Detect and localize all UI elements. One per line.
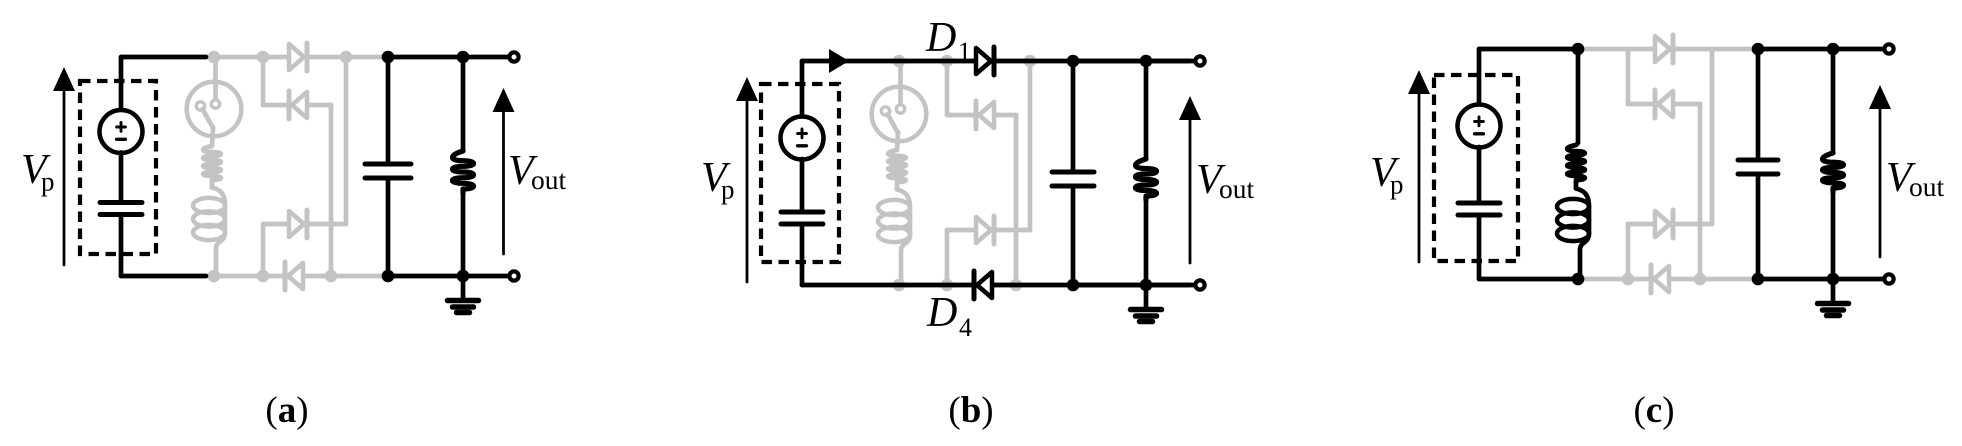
wire capacitor to bottom rail [119, 217, 124, 277]
voltage source Vp (circle +/-) [100, 110, 143, 153]
wire filter cap branch top [1071, 61, 1076, 170]
wire black bottom rail output side [1070, 283, 1194, 288]
terminal output + [1884, 44, 1893, 53]
wire D3 vertical up to top rail [344, 57, 349, 224]
wire switch to resistor [212, 127, 213, 146]
node top rail / bridge input junction [257, 51, 270, 64]
resistor RL (load) [453, 151, 474, 193]
wire black top rail from source [1479, 47, 1582, 52]
wire gray bottom rail (bridge input side) [891, 283, 1073, 288]
wire D3 row horizontal [1628, 222, 1712, 227]
voltage source Vp (circle +/-) [1458, 105, 1501, 148]
arrow Vout [1189, 114, 1192, 263]
wire inductor to bottom rail [214, 250, 216, 277]
dashed box (piezo element) [761, 84, 839, 262]
switch S1 (open, in circle) [187, 82, 242, 137]
resistor R (parasitic) [203, 146, 221, 182]
wire D2 vertical down to bottom rail [1014, 115, 1019, 285]
wire bridge input branch down from D3 row to bottom rail [261, 224, 266, 276]
svg-text:D: D [925, 15, 956, 61]
terminal output + [1195, 56, 1204, 65]
wire gray bottom rail (bridge input side) [206, 274, 388, 279]
dashed box (piezo element) [1434, 75, 1518, 261]
diode D3 [1655, 211, 1670, 237]
wire source top [119, 57, 124, 111]
wire bridge input branch down to D2 row [261, 57, 266, 105]
node cap top [1752, 43, 1765, 56]
capacitor Cf (filter) [1052, 170, 1094, 175]
wire resistor to inductor [1574, 182, 1579, 189]
svg-text:out: out [1219, 173, 1255, 204]
node top rail / parasitic branch junction [893, 55, 906, 68]
wire load branch bottom [1831, 192, 1836, 279]
wire D2 vertical down to bottom rail [1698, 104, 1703, 279]
wire source to capacitor [119, 153, 124, 201]
node bottom rail / parasitic branch junction [208, 270, 221, 283]
diode D1 [1655, 36, 1670, 62]
wire black top rail output side [385, 55, 508, 60]
wire black bottom rail output side [385, 274, 508, 279]
wire resistor to inductor [895, 184, 900, 190]
ground [1831, 279, 1836, 303]
node cap top [1067, 55, 1080, 68]
wire D2 row horizontal [1628, 102, 1700, 107]
node bottom rail / bridge input junction [1622, 273, 1635, 286]
wire black bottom rail output side [1755, 277, 1883, 282]
arrow Vout [502, 106, 505, 254]
voltage source Vp (circle +/-) [781, 117, 824, 160]
node bottom rail / parasitic branch junction [893, 279, 906, 292]
wire black top rail output side [1070, 59, 1194, 64]
arrow Vout [1879, 103, 1882, 257]
wire black top rail from source [121, 55, 206, 60]
resistor R (parasitic) [888, 150, 906, 184]
capacitor Cp (piezo internal) [781, 210, 823, 215]
wire bridge input branch down from D3 row to bottom rail [945, 230, 950, 285]
node bottom rail / D2 vertical junction [1010, 279, 1023, 292]
svg-text:D: D [926, 290, 957, 336]
node top rail / parasitic branch junction [208, 51, 221, 64]
switch S1 (open, in circle) [872, 87, 927, 142]
wire capacitor to bottom rail [800, 226, 805, 285]
node top rail / D3 vertical junction [1024, 55, 1037, 68]
wire load branch bottom [461, 193, 466, 276]
wire D3 row horizontal [947, 228, 1030, 233]
wire switch to resistor [897, 132, 898, 150]
diode D3 [976, 217, 991, 243]
svg-text:(b): (b) [948, 390, 993, 431]
wire black top rail output side [1755, 47, 1883, 52]
diode D4 (black, conducting) [977, 272, 992, 298]
wire filter cap branch top [386, 57, 391, 162]
wire bridge input branch down from D3 row to bottom rail [1626, 224, 1631, 279]
node cap bottom [1067, 279, 1080, 292]
wire D3 vertical up to top rail [1028, 61, 1033, 230]
dashed box (piezo element) [80, 81, 156, 254]
node load top [1827, 43, 1840, 56]
diode D2 [1658, 91, 1673, 117]
diode D3 [289, 211, 304, 237]
node bottom rail / D2 vertical junction [325, 270, 338, 283]
resistor RL (load) [1823, 153, 1844, 192]
node load top [1140, 55, 1153, 68]
svg-text:p: p [41, 167, 55, 197]
terminal output - [1195, 280, 1204, 289]
ground [1144, 285, 1149, 309]
terminal output + [509, 52, 518, 61]
wire source top [800, 61, 805, 117]
wire filter cap branch bottom [1071, 188, 1076, 285]
node load bottom [457, 270, 470, 283]
node RL branch top [1572, 43, 1585, 56]
svg-text:4: 4 [959, 313, 972, 342]
circuit (b) conduction phase D1/D4 [701, 15, 1255, 431]
wire D2 row horizontal [947, 113, 1016, 118]
wire inductor to bottom rail [1578, 251, 1580, 280]
svg-text:(c): (c) [1633, 390, 1674, 431]
wire load branch bottom [1144, 200, 1149, 285]
terminal output - [1884, 274, 1893, 283]
wire load branch top [1831, 49, 1836, 153]
capacitor Cf (filter) [1738, 158, 1778, 163]
wire switch branch top [898, 61, 903, 104]
terminal output - [509, 271, 518, 280]
wire filter cap branch bottom [1756, 176, 1761, 279]
node cap bottom [1752, 273, 1765, 286]
diode D4 [1654, 266, 1669, 292]
wire switch branch top [213, 57, 218, 99]
node RL branch bottom [1572, 273, 1585, 286]
wire black bottom rail from source [1479, 277, 1582, 282]
node load bottom [1140, 279, 1153, 292]
resistor R (parasitic) [1567, 145, 1585, 182]
node bottom rail / D2 vertical junction [1694, 273, 1707, 286]
wire D2 vertical down to bottom rail [329, 105, 334, 276]
wire D3 vertical up to top rail [1710, 49, 1715, 224]
node bottom rail / bridge input junction [257, 270, 270, 283]
node load top [457, 51, 470, 64]
node cap top [382, 51, 395, 64]
node bottom rail / bridge input junction [941, 279, 954, 292]
wire inductor to bottom rail [899, 252, 901, 286]
wire bridge input branch down to D2 row [945, 61, 950, 115]
svg-text:(a): (a) [265, 390, 308, 431]
wire gray top rail (bridge input side) [1582, 47, 1758, 52]
resistor RL (load) [1136, 159, 1157, 200]
wire source top [1477, 49, 1482, 105]
capacitor Cp (piezo internal) [100, 200, 142, 205]
wire resistor to inductor [210, 182, 215, 188]
wire D3 row horizontal [263, 222, 346, 227]
wire filter cap branch bottom [386, 180, 391, 276]
wire black bottom rail from source [802, 283, 1189, 288]
wire inductor branch top [1576, 49, 1578, 145]
node cap bottom [382, 270, 395, 283]
ground [461, 276, 466, 300]
circuit (a) standard rectifier, switch open [21, 43, 567, 431]
svg-text:p: p [721, 175, 735, 205]
arrow Vp [63, 85, 66, 265]
diode D2 [979, 102, 994, 128]
arrow Vp [746, 95, 749, 282]
diode D1 [289, 44, 304, 70]
circuit (c) inductive phase, L-R branch conducting [1370, 35, 1945, 431]
svg-text:out: out [1909, 171, 1945, 202]
wire source to capacitor [800, 159, 805, 210]
svg-text:out: out [531, 164, 567, 195]
inductor L (parasitic coil) [212, 188, 225, 206]
wire gray top rail (bridge input side) [206, 55, 388, 60]
wire D2 row horizontal [263, 103, 331, 108]
arrow Vp [1418, 88, 1421, 262]
capacitor Cf (filter) [365, 162, 411, 167]
svg-text:p: p [1390, 170, 1404, 200]
inductor L (parasitic coil) [897, 190, 910, 208]
wire black top rail from source [802, 59, 1189, 64]
wire gray top rail (bridge input side) [891, 59, 1073, 64]
wire load branch top [1144, 61, 1149, 159]
svg-text:1: 1 [958, 37, 971, 66]
capacitor Cp (piezo internal) [1458, 201, 1500, 206]
wire black bottom rail from source [121, 274, 206, 279]
wire gray bottom rail (bridge input side) [1582, 277, 1758, 282]
node top rail / D3 vertical junction [340, 51, 353, 64]
diode D2 [292, 92, 307, 118]
diode D4 [288, 263, 303, 289]
node load bottom [1827, 273, 1840, 286]
wire source to capacitor [1477, 147, 1482, 201]
diode D1 (black, conducting) [976, 48, 991, 74]
inductor L (parasitic coil) [1576, 189, 1589, 207]
wire bridge input branch down to D2 row [1626, 49, 1631, 104]
wire load branch top [461, 57, 466, 151]
node top rail / bridge input junction [941, 55, 954, 68]
wire capacitor to bottom rail [1477, 217, 1482, 279]
current direction arrow on top rail [829, 49, 849, 73]
wire filter cap branch top [1756, 49, 1761, 158]
